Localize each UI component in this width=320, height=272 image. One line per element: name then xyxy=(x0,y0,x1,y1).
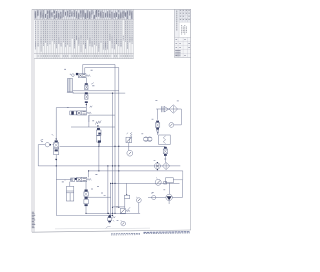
wire bottom bus xyxy=(86,212,140,214)
spring housing AK2 xyxy=(159,135,171,144)
label W mark xyxy=(90,106,92,108)
frame inner left border xyxy=(33,9,35,232)
gauge MH5 xyxy=(155,177,161,185)
valve Y3 (4/2 directional valve) xyxy=(71,177,92,181)
wire bus P2 top xyxy=(85,67,119,69)
junction DR1 bus xyxy=(98,146,119,172)
wire stack K3 side port xyxy=(88,196,111,198)
faint inner bottom line xyxy=(55,227,150,230)
label MH4 xyxy=(117,220,119,222)
wire cartridge K5 drop xyxy=(164,156,166,163)
suction strainer xyxy=(152,195,156,199)
electric motor M1 xyxy=(164,178,174,184)
title block xyxy=(175,9,191,57)
frame top border xyxy=(32,8,191,10)
wire Y2 drain drop xyxy=(88,115,90,127)
label K1 leader xyxy=(91,83,94,86)
gauge MH4 xyxy=(121,220,126,226)
accumulator AK1 capsule xyxy=(144,137,152,142)
wire E3 stub xyxy=(98,143,100,147)
labels F2 xyxy=(154,159,167,161)
pipe box B1 xyxy=(124,183,129,198)
relief valve KP3 xyxy=(120,207,130,214)
label KP1 xyxy=(92,120,94,122)
wire long bus T line xyxy=(38,165,180,167)
label K3 xyxy=(91,187,106,196)
wire pump drop xyxy=(168,201,170,204)
accumulator A1 (tall cylinder) xyxy=(67,79,74,93)
wire riser P1 xyxy=(114,65,116,214)
wire stack K3 drop xyxy=(85,206,87,213)
orifice DR1 xyxy=(97,138,101,143)
wire pump discharge xyxy=(172,180,182,198)
pump H1 xyxy=(166,194,172,200)
hydraulic cylinder C1 xyxy=(66,182,73,201)
wire bus from accumulator base xyxy=(73,90,119,92)
gauge MH3 xyxy=(136,197,141,203)
filter F1 xyxy=(169,105,178,114)
wire bus y146 xyxy=(60,145,166,147)
wire bus y183 xyxy=(111,182,180,184)
pilot operated check valve KO1 xyxy=(45,139,59,161)
wire valve Y3 top link xyxy=(88,171,90,177)
label Y2 xyxy=(67,107,69,109)
wire riser T3 xyxy=(110,183,112,215)
orifice BP1 xyxy=(154,162,160,170)
wire valve Y1 port B riser xyxy=(84,68,86,74)
wire valve Y1 port A riser xyxy=(82,65,84,74)
footer print info text xyxy=(111,232,190,235)
wire check line xyxy=(156,108,181,110)
relief valve KP1 cartridge xyxy=(95,120,101,142)
valve Y1 (4/2 solenoid directional valve) xyxy=(72,73,91,78)
wire chain A to valve Y2 xyxy=(85,105,87,111)
wire B1 to KP3 xyxy=(124,199,126,209)
frame right border xyxy=(190,9,192,230)
wire gauge MH3 drop xyxy=(138,203,140,214)
wire accumulator riser xyxy=(157,131,158,135)
wire enclosure corner xyxy=(56,108,86,139)
wire check to cartridge K4 xyxy=(157,109,159,120)
junction dots bottom xyxy=(107,213,113,217)
wire gauge MH1 link xyxy=(174,124,182,126)
stray pen mark xyxy=(106,226,111,228)
filter F2 xyxy=(162,162,169,169)
wire right link xyxy=(182,171,184,180)
wire valve Y2 outlet xyxy=(89,114,115,116)
label KO1 xyxy=(41,139,44,141)
wire riser T2 xyxy=(107,166,109,213)
label AK1 xyxy=(141,133,143,135)
check valve KO2 xyxy=(161,106,168,112)
wire orifice DR1 drop xyxy=(98,142,100,147)
label C1 xyxy=(62,181,64,183)
cartridge valve stack K3 xyxy=(84,182,88,206)
label Y3 xyxy=(64,175,97,180)
label K4 xyxy=(152,118,154,120)
wire bus lower xyxy=(73,92,126,94)
labels pump xyxy=(151,190,165,194)
wire right drop from filter xyxy=(180,109,182,125)
wire bottom bus 2 xyxy=(113,206,125,207)
leader mark xyxy=(52,134,54,135)
wire bus y171 xyxy=(89,170,183,172)
element list table xyxy=(34,9,134,58)
wire enclosure bottom xyxy=(57,215,113,217)
valve Y2 (pilot operated directional valve) xyxy=(70,111,91,115)
frame bottom border (tilted) xyxy=(32,230,191,232)
wire motor-pump link xyxy=(168,183,170,194)
wire DR1 long drop xyxy=(98,143,100,171)
label Y1 xyxy=(91,69,93,71)
wire drain bus y127 xyxy=(71,126,115,128)
relief valve KP2 with gauge MH2 xyxy=(126,132,133,156)
label A1 xyxy=(64,69,71,74)
wire pump suction xyxy=(148,197,166,199)
cartridge valve stack K1 K2 xyxy=(85,78,88,105)
cartridge valve K4 xyxy=(155,121,159,134)
frame outer left border xyxy=(31,9,33,232)
cartridge valve K5 xyxy=(163,147,167,156)
labels F1 xyxy=(155,100,178,102)
wire left assembly drop / enclosure xyxy=(56,160,58,216)
gauge MH1 xyxy=(169,123,174,128)
margin stamp text block xyxy=(32,212,36,228)
wire valve Y2 drain xyxy=(88,115,90,122)
wire bus P1 top xyxy=(83,64,115,66)
wire pilot feed valve Y3 xyxy=(56,179,72,181)
wire left assembly inlet xyxy=(38,145,45,166)
valve KP4 xyxy=(108,216,116,224)
wire riser P2 xyxy=(118,68,120,208)
wire riser T1 xyxy=(112,93,114,216)
junction dots xyxy=(56,93,120,214)
